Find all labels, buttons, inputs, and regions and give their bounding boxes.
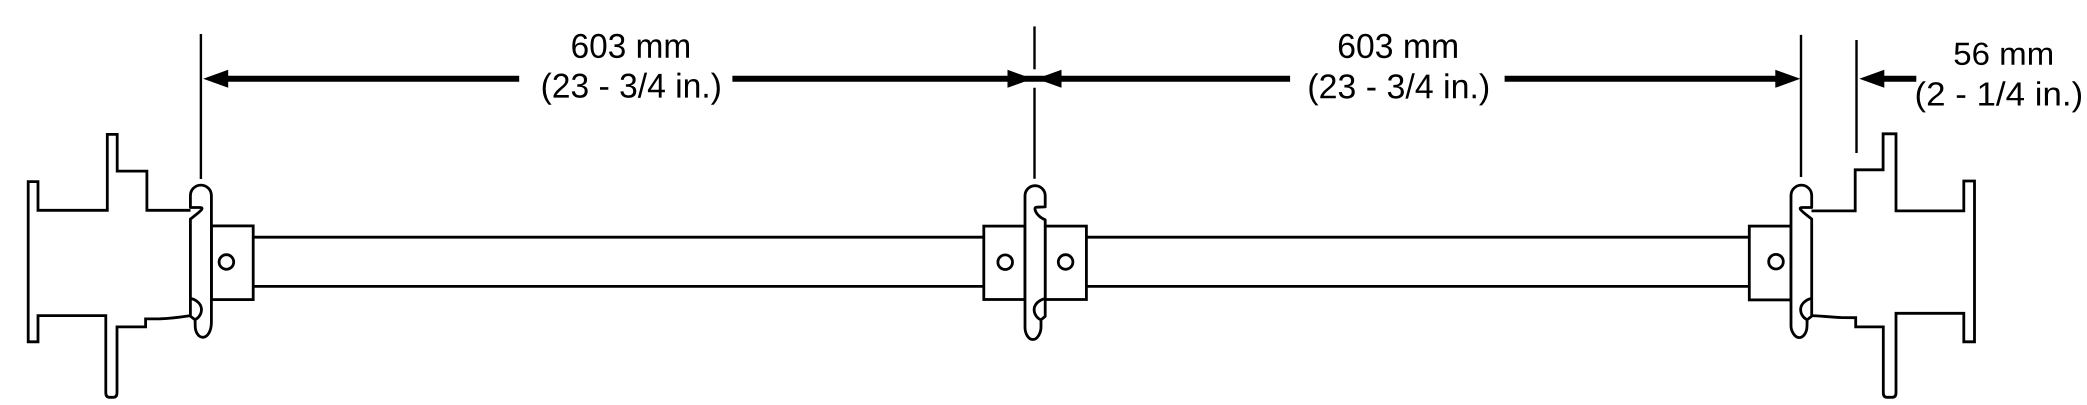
left clip bottom hook bump [190, 298, 201, 319]
label 56 mm line1 [1955, 43, 2053, 66]
right bracket clip capsule [1791, 185, 1812, 337]
right clip bottom hook bump [1801, 298, 1812, 319]
dimension line 56mm segment [1883, 76, 1916, 82]
middle right hole [1058, 255, 1073, 270]
arrowhead span2 left (at middle) [1037, 70, 1062, 88]
middle support right block [1045, 226, 1086, 299]
right block hole [1769, 254, 1784, 269]
middle support left block [984, 226, 1025, 299]
dimension line span1 right segment [732, 76, 1062, 82]
wire rail segment right (top and bottom lines) [1086, 237, 1749, 286]
left wall bracket body outline [28, 134, 190, 397]
left rail end block [211, 226, 253, 300]
dimension line span2 left segment [1061, 76, 1291, 82]
dimension extension line middle upper [1033, 26, 1035, 69]
middle clip bottom hook bump [1034, 299, 1045, 320]
wire rail segment left (top and bottom lines) [253, 237, 984, 286]
right rail end block [1749, 226, 1791, 300]
label 603 mm span1 line2 [543, 73, 720, 105]
arrowhead span1 right (at middle) [1008, 70, 1033, 88]
dimension line span1 left segment [227, 76, 519, 82]
label 603 mm span1 line1 [572, 34, 689, 58]
dimension line span2 right segment [1505, 76, 1777, 82]
dimension extension line right 1 (at right clip center) [1800, 35, 1802, 177]
label 603 mm span2 line2 [1309, 73, 1488, 105]
left block hole [219, 255, 234, 270]
dimension extension line right 2 (at wall face) [1855, 40, 1857, 153]
middle clip capsule [1025, 186, 1045, 340]
label 56 mm line2 [1917, 81, 2081, 112]
label 603 mm span2 line1 [1339, 34, 1457, 58]
left bracket clip capsule [190, 185, 211, 337]
right wall bracket body outline [1812, 134, 1975, 398]
arrowhead span2 right [1775, 70, 1800, 88]
arrowhead 56mm dimension [1859, 70, 1884, 88]
dimension extension line middle lower [1033, 88, 1035, 179]
arrowhead span1 left [203, 70, 228, 88]
middle left hole [998, 255, 1013, 270]
dimension extension line left (at left clip center) [200, 34, 202, 179]
